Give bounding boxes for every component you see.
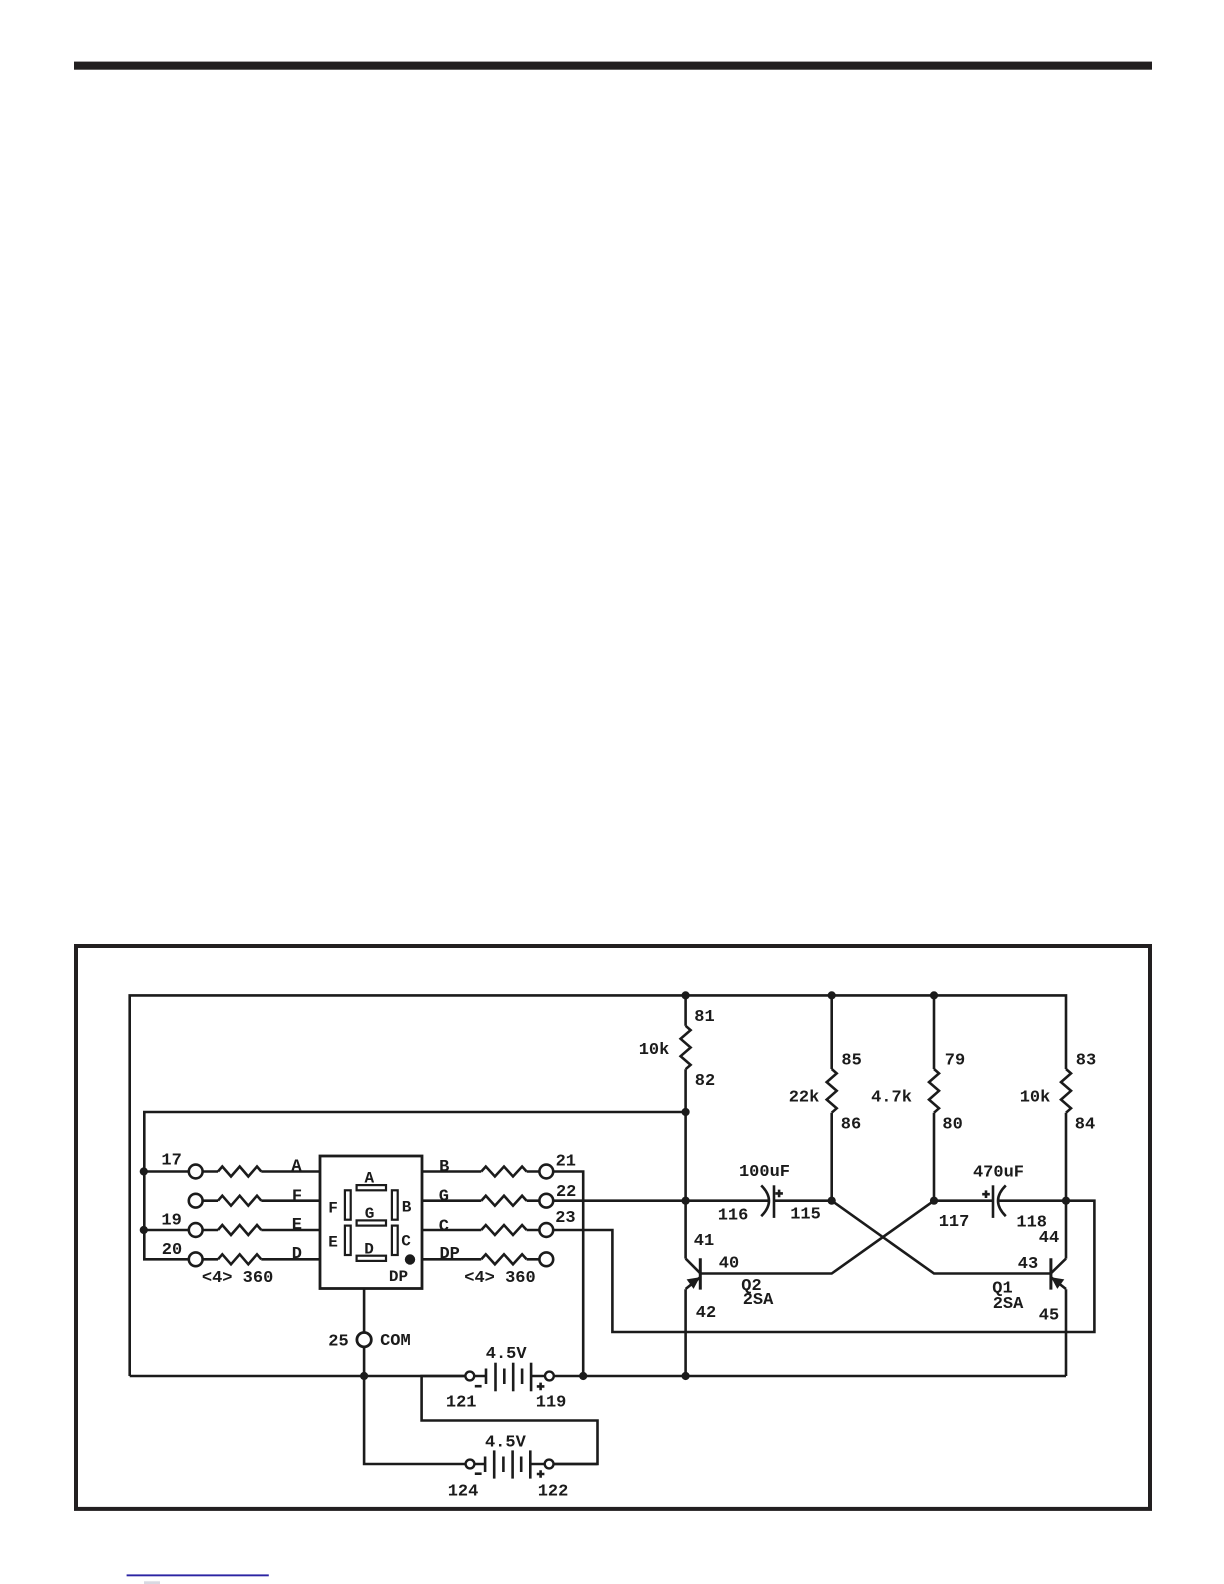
svg-text:79: 79 [945, 1052, 965, 1071]
svg-text:G: G [439, 1188, 449, 1207]
svg-text:20: 20 [162, 1241, 182, 1260]
svg-text:4.5V: 4.5V [486, 1345, 528, 1364]
svg-text:43: 43 [1018, 1255, 1038, 1274]
svg-text:44: 44 [1039, 1229, 1059, 1248]
svg-text:10k: 10k [639, 1041, 670, 1060]
svg-text:10k: 10k [1020, 1089, 1051, 1108]
svg-text:2SA: 2SA [993, 1295, 1024, 1314]
svg-text:DP: DP [389, 1268, 408, 1286]
svg-text:121: 121 [446, 1394, 477, 1413]
svg-text:22: 22 [556, 1183, 576, 1202]
svg-text:25: 25 [328, 1332, 348, 1351]
svg-text:115: 115 [790, 1206, 821, 1225]
svg-text:B: B [402, 1198, 412, 1216]
svg-text:DP: DP [439, 1245, 459, 1264]
svg-text:E: E [328, 1234, 338, 1252]
svg-text:22k: 22k [789, 1089, 820, 1108]
svg-text:82: 82 [695, 1072, 715, 1091]
svg-text:17: 17 [161, 1152, 181, 1171]
svg-text:<4> 360: <4> 360 [464, 1269, 535, 1288]
svg-text:19: 19 [161, 1212, 181, 1231]
svg-text:116: 116 [718, 1207, 749, 1226]
svg-text:41: 41 [694, 1232, 714, 1251]
svg-text:23: 23 [555, 1209, 575, 1228]
svg-text:122: 122 [538, 1483, 569, 1502]
svg-text:83: 83 [1076, 1052, 1096, 1071]
svg-text:B: B [439, 1158, 449, 1177]
svg-text:2SA: 2SA [743, 1291, 774, 1310]
svg-text:A: A [364, 1169, 374, 1187]
svg-text:86: 86 [841, 1116, 861, 1135]
svg-text:F: F [292, 1187, 302, 1206]
svg-text:4.7k: 4.7k [871, 1089, 912, 1108]
svg-text:40: 40 [719, 1255, 739, 1274]
svg-text:119: 119 [536, 1394, 567, 1413]
svg-text:470uF: 470uF [973, 1164, 1024, 1183]
svg-text:F: F [328, 1200, 338, 1218]
svg-text:G: G [365, 1205, 375, 1223]
svg-text:E: E [292, 1216, 302, 1235]
svg-text:C: C [439, 1218, 449, 1237]
svg-text:80: 80 [942, 1116, 962, 1135]
svg-text:117: 117 [939, 1213, 970, 1232]
svg-text:<4> 360: <4> 360 [202, 1269, 273, 1288]
svg-text:42: 42 [696, 1304, 716, 1323]
svg-text:100uF: 100uF [739, 1163, 790, 1182]
svg-text:C: C [401, 1233, 411, 1251]
svg-text:4.5V: 4.5V [485, 1433, 527, 1452]
svg-text:81: 81 [694, 1008, 714, 1027]
svg-text:COM: COM [380, 1332, 411, 1351]
svg-text:A: A [291, 1158, 302, 1177]
svg-text:21: 21 [556, 1152, 576, 1171]
svg-text:85: 85 [841, 1052, 861, 1071]
svg-text:45: 45 [1039, 1306, 1059, 1325]
svg-text:D: D [292, 1245, 302, 1264]
svg-text:84: 84 [1075, 1116, 1095, 1135]
svg-text:D: D [364, 1240, 374, 1258]
svg-text:124: 124 [448, 1482, 479, 1501]
